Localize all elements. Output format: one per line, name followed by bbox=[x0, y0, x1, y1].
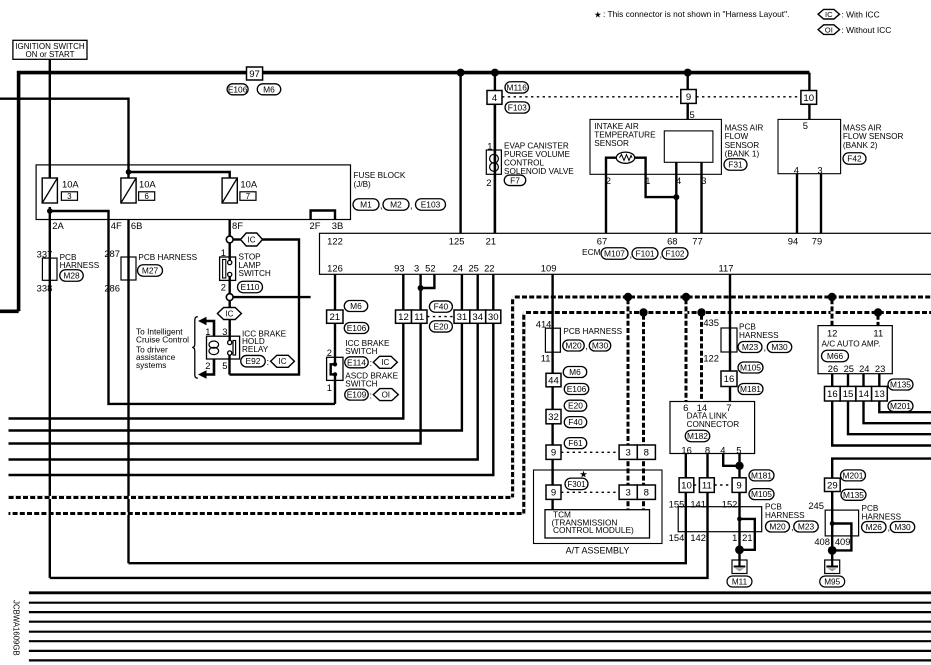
svg-text:24: 24 bbox=[453, 263, 463, 274]
svg-text:1: 1 bbox=[487, 141, 492, 152]
svg-text:141: 141 bbox=[690, 498, 706, 509]
svg-text:M182: M182 bbox=[687, 431, 708, 441]
svg-text:F101: F101 bbox=[635, 249, 654, 259]
svg-text:M66: M66 bbox=[827, 351, 844, 361]
svg-text:122: 122 bbox=[703, 352, 719, 363]
svg-text:M6: M6 bbox=[569, 367, 581, 377]
svg-text:12: 12 bbox=[398, 312, 409, 323]
svg-text:M11: M11 bbox=[732, 577, 748, 586]
svg-text:Cruise Control: Cruise Control bbox=[136, 335, 189, 345]
svg-text:F61: F61 bbox=[568, 438, 583, 448]
svg-text:M181: M181 bbox=[751, 470, 772, 480]
svg-text:E114: E114 bbox=[347, 357, 366, 367]
svg-text:77: 77 bbox=[692, 235, 702, 246]
svg-text:22: 22 bbox=[484, 263, 494, 274]
svg-text:1: 1 bbox=[645, 175, 650, 186]
svg-text:3: 3 bbox=[817, 165, 822, 176]
svg-text:OI: OI bbox=[382, 390, 390, 399]
svg-text:SWITCH: SWITCH bbox=[345, 379, 377, 388]
svg-text:2: 2 bbox=[486, 177, 491, 188]
svg-text:,: , bbox=[791, 521, 794, 532]
svg-text:94: 94 bbox=[788, 235, 798, 246]
svg-text:152: 152 bbox=[722, 498, 738, 509]
svg-text:F102: F102 bbox=[665, 249, 684, 259]
svg-text:6: 6 bbox=[144, 192, 148, 201]
svg-text:11: 11 bbox=[873, 328, 883, 339]
svg-text:PCB HARNESS: PCB HARNESS bbox=[563, 327, 622, 336]
svg-text:15: 15 bbox=[843, 389, 854, 400]
svg-text:409: 409 bbox=[835, 536, 851, 547]
svg-text:30: 30 bbox=[488, 312, 499, 323]
svg-text:32: 32 bbox=[548, 412, 559, 423]
svg-text:67: 67 bbox=[597, 235, 607, 246]
svg-text:16: 16 bbox=[724, 374, 735, 385]
svg-text:★: ★ bbox=[579, 469, 587, 480]
svg-text:M6: M6 bbox=[263, 84, 275, 94]
svg-text:3: 3 bbox=[222, 326, 227, 337]
svg-text:23: 23 bbox=[875, 363, 885, 374]
svg-text:M26: M26 bbox=[866, 522, 883, 532]
svg-text:E106: E106 bbox=[347, 323, 367, 333]
svg-text:IC: IC bbox=[248, 235, 256, 244]
svg-text:E110: E110 bbox=[241, 282, 260, 292]
svg-text:3: 3 bbox=[626, 488, 631, 499]
svg-text:M201: M201 bbox=[843, 470, 864, 480]
svg-text:9: 9 bbox=[551, 448, 556, 459]
svg-text:M28: M28 bbox=[63, 271, 80, 281]
svg-text:142: 142 bbox=[690, 532, 706, 543]
svg-text:21: 21 bbox=[742, 532, 752, 543]
svg-text:M30: M30 bbox=[771, 342, 788, 352]
svg-text:4: 4 bbox=[794, 165, 799, 176]
svg-text:FUSE BLOCK: FUSE BLOCK bbox=[354, 171, 406, 180]
svg-text:E106: E106 bbox=[567, 384, 587, 394]
svg-text:11: 11 bbox=[541, 352, 551, 363]
svg-text:126: 126 bbox=[327, 263, 343, 274]
svg-text:8: 8 bbox=[705, 444, 710, 455]
svg-text:,: , bbox=[660, 249, 663, 260]
svg-text:68: 68 bbox=[667, 235, 677, 246]
svg-text:,: , bbox=[410, 199, 413, 210]
svg-text:3: 3 bbox=[67, 192, 71, 201]
svg-text:E103: E103 bbox=[421, 200, 441, 210]
svg-text:,: , bbox=[888, 522, 891, 533]
svg-text:3: 3 bbox=[414, 263, 419, 274]
svg-text:5: 5 bbox=[736, 444, 741, 455]
svg-text:10: 10 bbox=[803, 93, 814, 104]
svg-text:E20: E20 bbox=[433, 321, 448, 331]
svg-text:,: , bbox=[764, 342, 767, 353]
svg-text:IC: IC bbox=[825, 10, 833, 19]
svg-text:9: 9 bbox=[736, 481, 741, 492]
svg-text:ECM: ECM bbox=[582, 247, 601, 257]
svg-text:E20: E20 bbox=[568, 401, 583, 411]
svg-text:M30: M30 bbox=[592, 341, 609, 351]
svg-text:14: 14 bbox=[858, 389, 869, 400]
svg-text:M181: M181 bbox=[740, 384, 761, 394]
svg-text:M135: M135 bbox=[890, 380, 911, 390]
svg-text:9: 9 bbox=[551, 488, 556, 499]
svg-text:93: 93 bbox=[394, 263, 404, 274]
svg-text:HARNESS: HARNESS bbox=[739, 331, 779, 340]
svg-text:IC: IC bbox=[279, 357, 287, 366]
svg-text:SOLENOID VALVE: SOLENOID VALVE bbox=[504, 167, 574, 176]
svg-text:10A: 10A bbox=[139, 179, 156, 190]
svg-text:CONTROL MODULE): CONTROL MODULE) bbox=[553, 525, 634, 535]
svg-text:F7: F7 bbox=[510, 175, 520, 185]
svg-text:29: 29 bbox=[827, 480, 838, 491]
svg-text:338: 338 bbox=[37, 283, 53, 294]
svg-text:1: 1 bbox=[327, 382, 332, 393]
svg-text:,: , bbox=[630, 249, 633, 260]
svg-text:1: 1 bbox=[205, 326, 210, 337]
svg-text:CONNECTOR: CONNECTOR bbox=[687, 420, 740, 429]
svg-text:2: 2 bbox=[327, 347, 332, 358]
svg-text:M2: M2 bbox=[390, 200, 402, 210]
svg-text:: This connector is not shown: : This connector is not shown in "Harnes… bbox=[603, 9, 789, 19]
svg-text:PCB HARNESS: PCB HARNESS bbox=[138, 253, 197, 262]
svg-text:(J/B): (J/B) bbox=[354, 180, 372, 189]
svg-text:M20: M20 bbox=[769, 522, 786, 532]
svg-text:E109: E109 bbox=[347, 390, 367, 400]
svg-text:M105: M105 bbox=[740, 363, 761, 373]
svg-text:M20: M20 bbox=[565, 341, 582, 351]
svg-text:M1: M1 bbox=[360, 200, 372, 210]
svg-text:109: 109 bbox=[541, 263, 557, 274]
svg-text:9: 9 bbox=[686, 92, 691, 103]
svg-text:3: 3 bbox=[626, 448, 631, 459]
svg-text::: : bbox=[370, 357, 373, 368]
svg-text:(BANK 2): (BANK 2) bbox=[843, 141, 878, 150]
svg-text:: With ICC: : With ICC bbox=[842, 10, 880, 20]
svg-text:IC: IC bbox=[381, 358, 389, 367]
svg-text:: Without ICC: : Without ICC bbox=[842, 25, 892, 35]
svg-text:3B: 3B bbox=[332, 220, 343, 231]
svg-text:4: 4 bbox=[720, 444, 725, 455]
svg-text:M116: M116 bbox=[507, 82, 528, 92]
svg-text:,: , bbox=[380, 199, 383, 210]
svg-text:F301: F301 bbox=[567, 480, 586, 489]
svg-text:OI: OI bbox=[825, 25, 833, 34]
svg-text:11: 11 bbox=[414, 312, 424, 323]
svg-text:SWITCH: SWITCH bbox=[239, 269, 271, 278]
svg-text:52: 52 bbox=[425, 263, 435, 274]
svg-text:21: 21 bbox=[329, 312, 340, 323]
svg-text:A/T ASSEMBLY: A/T ASSEMBLY bbox=[566, 546, 630, 556]
svg-text:2: 2 bbox=[221, 281, 226, 292]
svg-text:117: 117 bbox=[719, 263, 734, 274]
svg-text:286: 286 bbox=[104, 283, 120, 294]
svg-text:E92: E92 bbox=[246, 356, 261, 366]
svg-text:2A: 2A bbox=[52, 220, 64, 231]
svg-text:4F: 4F bbox=[111, 220, 122, 231]
svg-text:M6: M6 bbox=[350, 301, 362, 311]
svg-text:(BANK 1): (BANK 1) bbox=[725, 149, 760, 158]
svg-text:8F: 8F bbox=[232, 220, 243, 231]
svg-text:10: 10 bbox=[681, 481, 692, 492]
svg-text:25: 25 bbox=[844, 363, 854, 374]
svg-text:10A: 10A bbox=[62, 179, 79, 190]
svg-text:5: 5 bbox=[803, 120, 808, 131]
svg-text:10A: 10A bbox=[240, 179, 257, 190]
svg-text:2: 2 bbox=[606, 175, 611, 186]
svg-text:HARNESS: HARNESS bbox=[60, 261, 100, 270]
svg-text:16: 16 bbox=[681, 444, 691, 455]
svg-text:F31: F31 bbox=[728, 160, 743, 170]
svg-text:,: , bbox=[585, 340, 588, 351]
svg-text:M95: M95 bbox=[824, 577, 840, 586]
svg-text:M23: M23 bbox=[742, 342, 759, 352]
svg-text:287: 287 bbox=[104, 248, 120, 259]
svg-text:24: 24 bbox=[859, 363, 869, 374]
svg-text:155: 155 bbox=[669, 498, 685, 509]
svg-text:F103: F103 bbox=[508, 103, 527, 113]
svg-text:16: 16 bbox=[827, 389, 838, 400]
svg-text:5: 5 bbox=[690, 109, 695, 120]
svg-text:26: 26 bbox=[828, 363, 838, 374]
svg-text:79: 79 bbox=[812, 235, 822, 246]
svg-text:1: 1 bbox=[732, 532, 737, 543]
svg-text:13: 13 bbox=[874, 389, 885, 400]
svg-text:25: 25 bbox=[468, 263, 478, 274]
svg-text:5: 5 bbox=[222, 360, 227, 371]
svg-text:IC: IC bbox=[225, 309, 233, 318]
svg-text:6B: 6B bbox=[131, 220, 142, 231]
svg-text:154: 154 bbox=[669, 532, 685, 543]
svg-text:245: 245 bbox=[808, 500, 824, 511]
svg-text:SWITCH: SWITCH bbox=[345, 347, 377, 356]
svg-text:2F: 2F bbox=[310, 220, 321, 231]
svg-text:HARNESS: HARNESS bbox=[862, 512, 902, 521]
svg-text:7: 7 bbox=[246, 192, 250, 201]
svg-text:2: 2 bbox=[205, 360, 210, 371]
svg-text:8: 8 bbox=[644, 488, 649, 499]
svg-text:SENSOR: SENSOR bbox=[594, 139, 629, 148]
svg-text:408: 408 bbox=[814, 536, 830, 547]
svg-text:44: 44 bbox=[548, 376, 559, 387]
svg-text:4: 4 bbox=[676, 175, 681, 186]
svg-text:M201: M201 bbox=[890, 401, 911, 411]
svg-text:125: 125 bbox=[449, 235, 465, 246]
svg-text:F40: F40 bbox=[568, 417, 583, 427]
svg-text:122: 122 bbox=[327, 235, 343, 246]
svg-text:RELAY: RELAY bbox=[242, 345, 269, 354]
svg-text:E106: E106 bbox=[228, 84, 248, 94]
svg-text:97: 97 bbox=[249, 69, 260, 80]
svg-text:M27: M27 bbox=[142, 266, 159, 276]
svg-text:337: 337 bbox=[37, 248, 53, 259]
svg-text:34: 34 bbox=[472, 312, 483, 323]
svg-text:★: ★ bbox=[594, 9, 602, 19]
svg-text::: : bbox=[267, 356, 270, 367]
svg-text:ON or START: ON or START bbox=[25, 50, 74, 59]
svg-text:M23: M23 bbox=[798, 522, 815, 532]
svg-text:M30: M30 bbox=[894, 522, 911, 532]
svg-text:M135: M135 bbox=[843, 490, 864, 500]
svg-text:1: 1 bbox=[221, 247, 226, 258]
svg-text:12: 12 bbox=[827, 328, 837, 339]
svg-text:8: 8 bbox=[644, 448, 649, 459]
svg-text:A/C AUTO AMP.: A/C AUTO AMP. bbox=[822, 339, 881, 348]
svg-text:31: 31 bbox=[457, 312, 468, 323]
svg-text:F40: F40 bbox=[434, 302, 449, 312]
svg-text:M107: M107 bbox=[604, 249, 625, 259]
svg-text:3: 3 bbox=[701, 175, 706, 186]
svg-text::: : bbox=[370, 389, 373, 400]
svg-text:11: 11 bbox=[702, 481, 712, 492]
svg-text:systems: systems bbox=[136, 360, 166, 370]
svg-text:F42: F42 bbox=[847, 154, 862, 164]
svg-text:21: 21 bbox=[486, 235, 496, 246]
svg-text:M105: M105 bbox=[751, 489, 772, 499]
svg-text:4: 4 bbox=[492, 93, 498, 104]
svg-text:JCBWA1609GB: JCBWA1609GB bbox=[12, 600, 21, 656]
svg-text:414: 414 bbox=[536, 319, 552, 330]
svg-text:HARNESS: HARNESS bbox=[765, 511, 805, 520]
svg-text:435: 435 bbox=[703, 317, 719, 328]
